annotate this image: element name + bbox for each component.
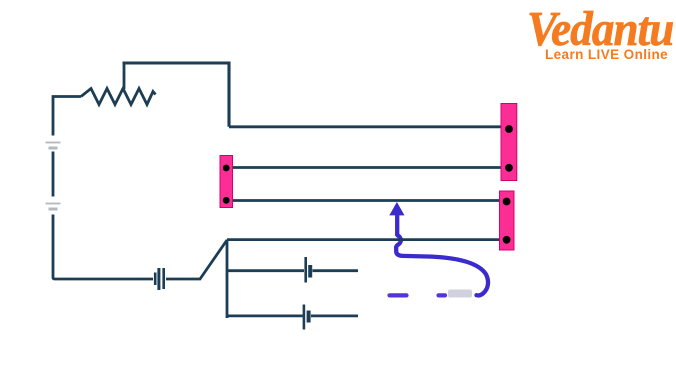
wire: key to junction diagonal xyxy=(166,240,227,279)
terminal dot xyxy=(505,125,513,133)
key K (plug bars) in primary circuit xyxy=(155,268,164,290)
terminal dot xyxy=(223,165,230,172)
cell E2 xyxy=(304,305,309,330)
wire: potentiometer segment 2 (y=167.5) xyxy=(233,166,502,169)
terminal strip (pink) right lower bar xyxy=(500,191,515,250)
wire: junction vertical down xyxy=(226,240,229,318)
wire: secondary branch 1 xyxy=(227,269,304,272)
jockey dashed travel line xyxy=(390,293,446,297)
battery B cell 1 (faint) xyxy=(46,143,61,149)
jockey arrow head xyxy=(389,202,404,215)
terminal strip (pink) right upper bar xyxy=(501,104,517,181)
terminal dot xyxy=(503,198,511,206)
terminal dot xyxy=(505,164,513,172)
wire: potentiometer segment 1 (y=127) xyxy=(229,125,501,128)
wire: left rail top segment xyxy=(53,97,81,136)
wire: potentiometer segment 3 (y=200.5) xyxy=(233,199,500,202)
cell E1 xyxy=(306,257,311,283)
terminal dot xyxy=(223,197,230,204)
wire: left rail bottom segment + bottom lead to key xyxy=(53,215,153,280)
faint smudge dash xyxy=(448,290,472,298)
battery B cell 2 (faint) xyxy=(46,204,61,210)
wire: potentiometer segment 4 (y=239.6) xyxy=(227,238,500,241)
wire: branch 2 right lead xyxy=(311,314,358,317)
wire: branch 1 right lead xyxy=(313,269,359,272)
terminal strip (pink) middle fold bar xyxy=(220,156,233,208)
wire: left rail middle segment xyxy=(52,152,55,197)
wire: top bump horizontal and right drop xyxy=(123,63,230,127)
jockey arrow stem with curve xyxy=(396,215,488,296)
terminal dot xyxy=(503,236,511,244)
wire: secondary branch 2 xyxy=(227,314,303,317)
resistor R (rheostat) zigzag xyxy=(81,89,156,105)
rheostat slider riser to top wire xyxy=(123,63,126,89)
Vedantu logo xyxy=(527,8,671,61)
